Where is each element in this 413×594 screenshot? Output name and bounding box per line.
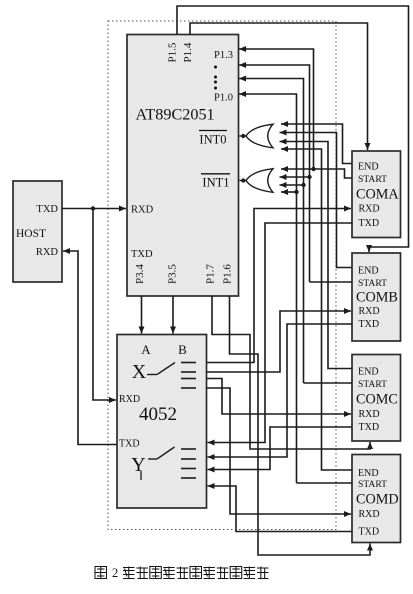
wire P1.6 to COMD select xyxy=(230,296,374,555)
U1 pin label P3.5 xyxy=(167,264,179,284)
wire COMC TXD to mux Y3 xyxy=(208,427,353,473)
svg-text:INT0: INT0 xyxy=(199,133,226,147)
svg-text:X: X xyxy=(132,361,147,383)
HOST box xyxy=(13,181,62,282)
U2 pin label TXD xyxy=(119,439,140,450)
svg-text:START: START xyxy=(358,278,387,289)
U2 switch label Y xyxy=(131,454,145,476)
wire COMD TXD to mux Y4 xyxy=(208,483,353,532)
U2 switch Y wiper xyxy=(148,447,175,459)
HOST pin label TXD xyxy=(36,204,58,215)
COMD pin label RXD xyxy=(359,509,380,520)
svg-text:TXD: TXD xyxy=(359,422,380,433)
NOR gate U3A to INT0 xyxy=(240,124,274,148)
U1 pin label P1.6 xyxy=(222,264,234,284)
serial port COMC box xyxy=(352,355,401,442)
COMC pin label END xyxy=(358,367,379,378)
COMD pin label TXD xyxy=(359,527,380,538)
U1 pin label P3.4 xyxy=(134,264,146,284)
COMA pin label START xyxy=(358,174,387,185)
HOST pin label RXD xyxy=(36,247,59,258)
U2 switch label X xyxy=(132,361,147,383)
svg-text:RXD: RXD xyxy=(119,394,140,405)
svg-text:4052: 4052 xyxy=(139,404,177,425)
COMC pin label TXD xyxy=(359,422,380,433)
serial port COMD box xyxy=(352,455,401,543)
svg-text:START: START xyxy=(358,379,387,390)
svg-text:2: 2 xyxy=(112,566,118,580)
COMD pin label START xyxy=(358,479,387,490)
COMC pin label RXD xyxy=(359,409,380,420)
svg-text:HOST: HOST xyxy=(16,228,46,240)
wire P3.4 to mux A xyxy=(139,296,145,334)
serial port COMB box xyxy=(352,253,401,341)
svg-text:RXD: RXD xyxy=(359,306,380,317)
wire COMD START row to INT1 gate xyxy=(281,189,299,195)
COMD pin label END xyxy=(358,468,379,479)
svg-text:TXD: TXD xyxy=(359,218,380,229)
wire COMB TXD to mux Y2 xyxy=(208,324,353,460)
wire HOST TXD to U1 RXD xyxy=(62,206,126,212)
svg-text:AT89C2051: AT89C2051 xyxy=(136,106,215,124)
U1 pin label P1.0 xyxy=(214,93,233,104)
HOST label xyxy=(16,228,46,240)
wire COMB START stub xyxy=(310,281,353,283)
wire HOST TXD branch to mux RXD xyxy=(93,209,116,404)
svg-text:RXD: RXD xyxy=(359,509,380,520)
COMB pin label START xyxy=(358,278,387,289)
wire P1.2 input row / COMB START riser xyxy=(239,62,310,282)
COMB label xyxy=(356,290,398,306)
svg-text:COMB: COMB xyxy=(356,290,398,306)
svg-text:TXD: TXD xyxy=(36,204,58,215)
COMC pin label START xyxy=(358,379,387,390)
U1 INT0 overline xyxy=(199,130,227,132)
wire P1.4 to COMA select xyxy=(190,23,371,150)
COMD label xyxy=(356,492,399,508)
svg-text:RXD: RXD xyxy=(36,247,59,258)
svg-text:P1.4: P1.4 xyxy=(182,42,194,62)
wire mux X1 to COMA RXD xyxy=(207,206,352,363)
wire COMC START row to INT1 gate xyxy=(280,182,306,188)
svg-text:COMA: COMA xyxy=(356,186,399,202)
U1 label AT89C2051 xyxy=(136,106,215,124)
wire COMA END to INT0 gate xyxy=(281,121,352,164)
serial port COMA box xyxy=(352,151,401,238)
svg-text:P3.5: P3.5 xyxy=(167,264,179,284)
svg-text:END: END xyxy=(358,266,379,277)
U1 pin label INT0 xyxy=(199,133,226,147)
svg-text:END: END xyxy=(358,468,379,479)
MCU U1 AT89C2051 box xyxy=(127,35,239,297)
wire P1.3 input row / COMA START riser xyxy=(239,46,314,169)
dashed module border xyxy=(108,21,336,530)
wire COMA START to INT1 gate xyxy=(281,166,352,178)
wire COMC START stub xyxy=(304,382,353,384)
svg-text:A: A xyxy=(141,342,151,357)
svg-text:END: END xyxy=(358,367,379,378)
wire P1.7 to COMC select xyxy=(212,296,373,449)
U2 Y common tick xyxy=(140,471,142,480)
mux U2 4052 box xyxy=(117,335,207,509)
wire COMB START row to INT1 gate xyxy=(280,174,312,180)
svg-text:B: B xyxy=(178,342,187,357)
svg-text:RXD: RXD xyxy=(359,409,380,420)
U2 switch X contacts xyxy=(181,363,196,389)
wire COMB END to INT0 gate xyxy=(280,130,353,268)
COMB pin label END xyxy=(358,266,379,277)
wire COMA TXD to mux Y1 xyxy=(208,223,353,446)
COMA pin label TXD xyxy=(359,218,380,229)
svg-text:COMD: COMD xyxy=(356,492,399,508)
COMC label xyxy=(356,392,398,408)
U1 pin label INT1 xyxy=(202,176,229,190)
U1 pin label P1.7 xyxy=(205,264,217,284)
wire COMD START stub xyxy=(297,482,353,484)
U1 pin label P1.5 xyxy=(167,42,179,62)
svg-text:Y: Y xyxy=(131,454,145,476)
svg-text:P1.7: P1.7 xyxy=(205,264,217,284)
svg-text:TXD: TXD xyxy=(359,527,380,538)
U1 pin label P1.4 xyxy=(182,42,194,62)
svg-text:RXD: RXD xyxy=(359,204,380,215)
svg-text:COMC: COMC xyxy=(356,392,398,408)
wire mux X4 to COMD RXD xyxy=(207,388,352,517)
svg-text:INT1: INT1 xyxy=(202,176,229,190)
U2 switch Y contacts xyxy=(181,449,196,478)
NOR gate U3B to INT1 xyxy=(240,169,274,193)
svg-text:END: END xyxy=(358,162,379,173)
svg-text:TXD: TXD xyxy=(359,319,380,330)
U1 pin label P1.3 xyxy=(214,50,233,61)
U2 switch X wiper xyxy=(147,363,175,375)
svg-text:START: START xyxy=(358,479,387,490)
svg-text:TXD: TXD xyxy=(131,249,153,260)
U2 label 4052 xyxy=(139,404,177,425)
svg-text:P1.6: P1.6 xyxy=(222,264,234,284)
svg-text:RXD: RXD xyxy=(131,205,154,216)
svg-text:P1.3: P1.3 xyxy=(214,50,233,61)
caption text xyxy=(95,566,269,580)
svg-text:P3.4: P3.4 xyxy=(134,264,146,284)
U1 pin label TXD xyxy=(131,249,153,260)
U2 pin label B xyxy=(178,342,187,357)
wire COMC END to INT0 gate xyxy=(280,139,353,369)
wire mux X3 to COMC RXD xyxy=(207,379,352,418)
COMA pin label END xyxy=(358,162,379,173)
svg-text:P1.0: P1.0 xyxy=(214,93,233,104)
COMB pin label TXD xyxy=(359,319,380,330)
svg-text:P1.5: P1.5 xyxy=(167,42,179,62)
wire P1.5 to COMB select xyxy=(177,6,409,252)
COMA pin label RXD xyxy=(359,204,380,215)
svg-text:START: START xyxy=(358,174,387,185)
wire mux TXD to HOST RXD xyxy=(63,248,117,445)
COMA label xyxy=(356,186,399,202)
svg-text:TXD: TXD xyxy=(119,439,140,450)
U1 INT1 overline xyxy=(201,173,230,175)
wire COMD END to INT0 gate xyxy=(281,146,352,470)
wire P1.0 input row / COMD START riser xyxy=(239,91,297,483)
U2 pin label RXD xyxy=(119,394,140,405)
wire P3.5 to mux B xyxy=(170,296,176,334)
U1 port dots ellipsis xyxy=(214,66,217,90)
wire P1.1 input row / COMC START riser xyxy=(239,76,304,384)
wire mux X2 to COMB RXD xyxy=(207,308,352,372)
U1 pin label RXD xyxy=(131,205,154,216)
U2 pin label A xyxy=(141,342,151,357)
COMB pin label RXD xyxy=(359,306,380,317)
